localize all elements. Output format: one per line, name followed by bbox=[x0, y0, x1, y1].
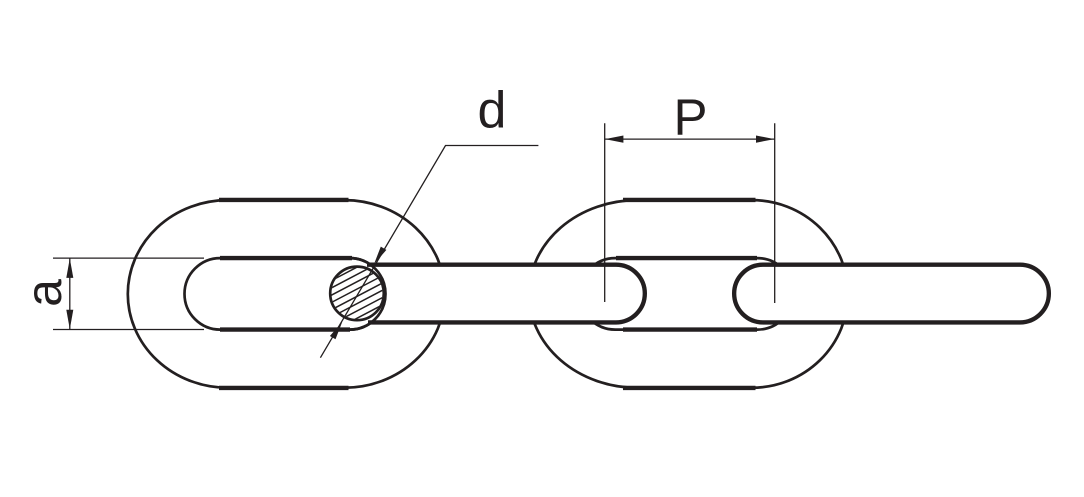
left link L1 outer bottom thick segment bbox=[219, 386, 349, 390]
middle edge-on link E1 outline bbox=[367, 265, 645, 323]
dimension a: extension line bottom bbox=[53, 329, 204, 331]
left link L1 inner top thick segment bbox=[220, 256, 352, 260]
dimension a: arrow down bbox=[66, 310, 73, 330]
dimension d: leader polyline bbox=[320, 146, 538, 358]
dimension P: extension line left bbox=[604, 123, 606, 302]
left link L1 outer top thick segment bbox=[219, 198, 349, 202]
wire cross-section circle outline bbox=[330, 267, 384, 321]
svg-text:P: P bbox=[674, 88, 708, 145]
dimension d: arrow upper (points down-left to tangent) bbox=[374, 247, 386, 265]
svg-text:a: a bbox=[16, 279, 72, 307]
right link L2 inner top thick segment bbox=[616, 256, 757, 260]
dimension P: arrow left bbox=[605, 136, 624, 143]
left link L1 inner bottom thick segment bbox=[220, 327, 350, 331]
right link L2 inner outline bbox=[580, 258, 794, 330]
cross-section hatching bbox=[307, 241, 407, 359]
left link L1 inner outline bbox=[185, 258, 386, 330]
right link L2 outer top thick segment bbox=[623, 198, 756, 202]
right link L2 outer bottom thick segment bbox=[623, 386, 756, 390]
left link L1 outer outline bbox=[128, 200, 445, 388]
dimension d: arrow lower (points up-right to tangent) bbox=[330, 322, 342, 340]
middle edge-on link E1 body fill bbox=[352, 263, 652, 325]
right edge-on link E2 outline bbox=[734, 265, 1049, 323]
dimension a: dimension line bbox=[69, 258, 71, 329]
right link L2 outer outline bbox=[529, 200, 848, 388]
dimension P: extension line right bbox=[774, 123, 776, 303]
svg-text:d: d bbox=[478, 82, 507, 140]
wire cross-section circle fill bbox=[330, 267, 384, 321]
dimension P: arrow right bbox=[756, 136, 775, 143]
dimension a: extension line top bbox=[53, 257, 204, 259]
left link L1 inner right cap arc (redrawn over capsule) bbox=[350, 258, 386, 330]
right edge-on link E2 body fill bbox=[718, 263, 1048, 325]
right link L2 inner bottom thick segment bbox=[623, 327, 757, 331]
dimension P: dimension line bbox=[605, 138, 775, 140]
dimension a: arrow up bbox=[66, 258, 73, 278]
